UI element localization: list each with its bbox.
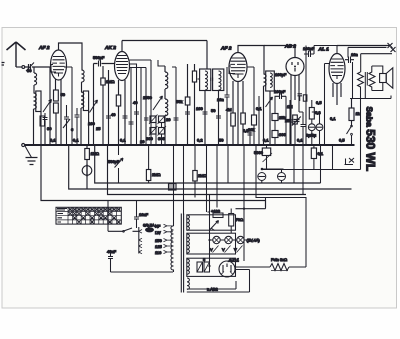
resistor R13 xyxy=(309,108,314,120)
svg-text:300: 300 xyxy=(279,132,286,137)
svg-text:10n: 10n xyxy=(217,97,224,102)
resistor R12 xyxy=(293,115,298,124)
arrow xyxy=(63,119,70,128)
svg-text:LW: LW xyxy=(155,230,161,235)
resistor R16 2M xyxy=(146,170,150,181)
box1 rectifier top xyxy=(187,215,236,230)
svg-text:2MΩ: 2MΩ xyxy=(152,172,161,177)
wire AZ1 to resistor xyxy=(235,266,306,268)
resistor R15 1M xyxy=(85,149,90,160)
capacitor xyxy=(106,116,111,118)
edge mark xyxy=(2,63,5,66)
wire columns osc xyxy=(156,123,162,146)
svg-text:0,5: 0,5 xyxy=(243,128,249,133)
wire xyxy=(119,95,126,145)
svg-text:0,1: 0,1 xyxy=(330,116,336,121)
wire column xyxy=(306,54,330,145)
capacitor xyxy=(123,110,128,124)
capacitor 10nF bottom xyxy=(108,201,139,232)
wire xyxy=(311,100,313,145)
wire xyxy=(291,90,303,145)
svg-text:30: 30 xyxy=(27,68,32,73)
coupling coil xyxy=(264,74,267,95)
svg-text:50: 50 xyxy=(61,92,66,97)
resistor R18 5000 xyxy=(254,148,272,162)
secondary winding 2 xyxy=(187,234,189,253)
svg-text:40nF: 40nF xyxy=(107,249,117,254)
resistor R5 xyxy=(185,97,190,105)
tube V6 AZ1 xyxy=(219,261,235,277)
svg-text:0,1: 0,1 xyxy=(50,138,56,143)
trimmer bank box1 xyxy=(146,115,166,142)
capacitor AB2 left xyxy=(298,94,303,101)
secondary winding 4 xyxy=(187,278,189,289)
wire xyxy=(69,145,352,189)
wires below IF xyxy=(205,91,219,146)
svg-text:6/0,5A: 6/0,5A xyxy=(143,223,155,228)
capacitor xyxy=(275,94,287,100)
switch pot xyxy=(261,168,263,170)
speaker field resistor xyxy=(358,72,364,99)
node terminal xyxy=(22,66,25,69)
trimmer blob AB2 xyxy=(292,117,301,126)
resistor R11 xyxy=(272,131,278,138)
pot arrow xyxy=(266,97,273,107)
wire column xyxy=(108,70,110,145)
resistor small 0,1 AB2 xyxy=(303,95,307,101)
wire extra columns xyxy=(131,67,290,145)
svg-text:2MΩ: 2MΩ xyxy=(198,173,207,178)
lamp 2 xyxy=(225,236,232,243)
svg-text:100pF: 100pF xyxy=(274,89,286,94)
svg-text:8μ/8μ: 8μ/8μ xyxy=(306,133,317,138)
bottom connecting verticals xyxy=(207,222,245,261)
svg-text:125: 125 xyxy=(155,244,162,249)
svg-text:70Ω: 70Ω xyxy=(236,217,243,222)
contacts left xyxy=(139,230,142,254)
switch contact rail xyxy=(138,227,140,254)
coil L2 upper xyxy=(82,70,85,92)
wire xyxy=(275,96,286,145)
wire h3 xyxy=(95,145,321,195)
capacitor C 500pF xyxy=(94,61,115,67)
svg-text:0,1: 0,1 xyxy=(120,138,126,143)
coil L1 upper xyxy=(34,67,37,93)
wire xyxy=(148,145,150,183)
wire xyxy=(174,145,245,261)
vertical filament feed xyxy=(208,195,210,262)
svg-text:25: 25 xyxy=(96,126,101,131)
bottom left wire xyxy=(111,271,174,273)
svg-text:110: 110 xyxy=(155,250,162,255)
tuning arrow L2 xyxy=(90,100,98,113)
svg-text:0,5: 0,5 xyxy=(339,138,345,143)
svg-text:NF: NF xyxy=(155,224,161,229)
svg-text:40: 40 xyxy=(111,112,116,117)
capacitor 40nF xyxy=(108,250,113,272)
resistor R4 xyxy=(116,95,120,106)
speaker cone xyxy=(386,68,393,88)
switch arrow mid xyxy=(115,158,124,168)
svg-text:0,1: 0,1 xyxy=(73,138,79,143)
tone switch xyxy=(345,158,355,165)
svg-text:AF 2: AF 2 xyxy=(220,46,232,52)
electrolytic 8uF a xyxy=(258,173,266,181)
tube V1 AF2 xyxy=(51,50,67,80)
resistor R14 right xyxy=(349,108,354,121)
coil L1 lower xyxy=(34,93,37,145)
oscillator wires from V2 xyxy=(130,60,152,145)
shield box L1 xyxy=(36,91,41,112)
svg-text:50: 50 xyxy=(219,138,224,143)
capacitor 500 below xyxy=(114,161,119,163)
secondary winding 1 xyxy=(187,215,189,230)
wire xyxy=(264,91,271,145)
switch arrow osc xyxy=(153,96,163,110)
resistor extra left xyxy=(40,116,45,126)
resistor R17 xyxy=(193,171,197,182)
capacitor xyxy=(43,113,48,124)
svg-text:40: 40 xyxy=(133,100,138,105)
wire xyxy=(102,66,104,145)
tube V1 pins xyxy=(56,79,62,90)
resistor R2 xyxy=(54,103,59,113)
tube V3 pins xyxy=(233,81,243,100)
bottom lines xyxy=(187,270,250,293)
resistor R19 0,1 xyxy=(311,148,316,159)
power transformer primary xyxy=(171,226,174,272)
wire column xyxy=(44,121,46,145)
resistor 100ohm xyxy=(229,214,234,227)
fuse box 1 xyxy=(197,262,203,272)
svg-text:150: 150 xyxy=(155,238,162,243)
resistor R6 xyxy=(192,71,196,82)
svg-text:V: V xyxy=(234,247,237,252)
svg-text:AK 2: AK 2 xyxy=(104,45,116,51)
long verticals into bottom section xyxy=(207,145,245,212)
svg-text:4M: 4M xyxy=(226,107,232,112)
svg-text:AB 2: AB 2 xyxy=(284,44,296,50)
main chassis bus xyxy=(25,144,355,146)
wire h right verticals xyxy=(294,145,321,195)
junction dots filament xyxy=(208,239,210,241)
wire xyxy=(312,112,320,145)
wire h5 xyxy=(111,145,162,193)
capacitor xyxy=(203,112,222,118)
right edge bottom section xyxy=(236,198,307,268)
tube V2 pins xyxy=(119,80,126,95)
svg-text:1M: 1M xyxy=(287,104,293,109)
svg-text:20: 20 xyxy=(166,117,171,122)
tube V2 AK2 xyxy=(115,52,130,81)
top bus wire xyxy=(122,40,207,42)
wire xyxy=(261,145,284,169)
svg-text:0,5: 0,5 xyxy=(316,100,322,105)
resistor R1 xyxy=(54,90,59,101)
bus terminal xyxy=(22,144,25,147)
capacitor block below xyxy=(169,184,177,191)
svg-text:Saba 530 WL: Saba 530 WL xyxy=(364,107,378,172)
secondary winding 3 xyxy=(187,259,189,274)
box3 rectifier xyxy=(187,258,236,276)
svg-text:0,1: 0,1 xyxy=(263,138,269,143)
coil L2 lower xyxy=(81,92,84,145)
wire xyxy=(233,95,243,145)
speaker driver xyxy=(380,74,387,83)
capacitor 100pF xyxy=(304,51,314,57)
svg-text:50k: 50k xyxy=(176,99,182,104)
speaker capacitor xyxy=(365,72,367,86)
electrolytic capacitors 8uF xyxy=(306,124,323,138)
svg-text:0,1: 0,1 xyxy=(297,138,303,143)
svg-text:1k: 1k xyxy=(356,111,360,116)
resistor R3 1M xyxy=(101,78,105,85)
svg-text:10nF: 10nF xyxy=(139,212,149,217)
lamp 1 xyxy=(213,236,220,243)
svg-text:500pF: 500pF xyxy=(108,159,120,164)
wire antenna to input xyxy=(16,66,22,68)
svg-text:10n: 10n xyxy=(351,52,358,57)
svg-text:V: V xyxy=(210,247,213,252)
lamp arrows xyxy=(213,246,243,253)
wire h1 xyxy=(261,99,361,170)
tube V4 pins xyxy=(291,75,299,101)
fuse blob xyxy=(143,223,155,233)
AZ1 bottom loop xyxy=(220,277,234,285)
wire xyxy=(40,112,42,146)
resistor +100 horizontal xyxy=(213,213,223,218)
wire xyxy=(56,90,61,145)
wire xyxy=(351,99,353,124)
coil L3 lower xyxy=(165,99,168,145)
below-bus left box wire xyxy=(41,145,266,208)
svg-text:AZ 1: AZ 1 xyxy=(228,258,240,264)
svg-text:50: 50 xyxy=(211,108,216,113)
mains plug x2 xyxy=(391,47,396,52)
lamp wire stubs xyxy=(210,239,247,241)
mains top wires xyxy=(337,46,392,54)
svg-text:V: V xyxy=(222,247,225,252)
wire xyxy=(158,60,165,66)
pot arrow box1 xyxy=(210,221,219,231)
wire xyxy=(194,64,196,145)
IF transformer can 1 xyxy=(200,69,211,91)
svg-text:20: 20 xyxy=(140,139,145,144)
mains plug x1 xyxy=(388,43,393,48)
resistor R10 xyxy=(272,114,278,121)
wire column xyxy=(354,60,356,99)
phone jack xyxy=(82,165,92,177)
capacitor 10nF right of AL1 xyxy=(345,57,354,64)
wire xyxy=(187,64,189,145)
svg-text:(2V,4A): (2V,4A) xyxy=(247,238,261,243)
svg-text:100: 100 xyxy=(196,106,203,111)
svg-text:300: 300 xyxy=(146,136,153,141)
capacitor xyxy=(64,105,69,145)
svg-text:30k: 30k xyxy=(248,127,254,132)
svg-text:500pF: 500pF xyxy=(93,55,105,60)
svg-text:AL 1: AL 1 xyxy=(318,47,330,53)
speaker bottom wire xyxy=(350,96,391,99)
capacitor grid V3 xyxy=(225,67,230,145)
wire input to grid column xyxy=(35,67,50,145)
electrolytic 8uF b xyxy=(278,173,286,181)
wire xyxy=(348,47,361,98)
tuning arrow L1 xyxy=(43,100,52,113)
IF transformer can 2 xyxy=(213,69,224,91)
lamp 3 xyxy=(237,236,244,243)
capacitor xyxy=(75,108,80,145)
resistor Fein 3x0 xyxy=(270,257,289,271)
svg-text:30: 30 xyxy=(47,126,52,131)
box2 lamps xyxy=(187,233,236,254)
speaker loop xyxy=(372,66,383,91)
svg-text:5000: 5000 xyxy=(254,150,264,155)
svg-text:0,2: 0,2 xyxy=(197,138,203,143)
wire xyxy=(247,67,254,145)
resistor R9 xyxy=(252,115,257,125)
capacitor IF xyxy=(211,78,213,82)
contacts right with labels xyxy=(164,224,174,253)
coil L3 upper xyxy=(165,66,168,99)
svg-text:2500: 2500 xyxy=(143,95,153,100)
svg-text:100pF: 100pF xyxy=(303,46,315,51)
ground xyxy=(25,146,38,165)
svg-text:AF 2: AF 2 xyxy=(38,45,50,51)
junction dot xyxy=(243,208,245,210)
tube V5 pins xyxy=(333,83,341,105)
wire column xyxy=(64,67,72,145)
resistor R7 xyxy=(231,113,236,126)
svg-text:0,1: 0,1 xyxy=(256,106,262,111)
capacitor xyxy=(134,112,149,120)
wire xyxy=(313,145,315,170)
wire column xyxy=(93,64,95,146)
capacitor extras xyxy=(129,118,253,135)
switch right xyxy=(347,124,352,146)
tube V4 AB2 xyxy=(286,58,304,76)
speaker primary resistor xyxy=(369,66,375,91)
capacitor xyxy=(185,112,190,114)
wire top V4 xyxy=(264,46,295,58)
wire xyxy=(194,145,196,189)
transformer core xyxy=(181,214,183,293)
wire xyxy=(364,86,366,99)
table header marks xyxy=(57,209,67,223)
wire tube V1 top loop xyxy=(59,43,83,70)
fuse box 2 xyxy=(204,262,210,272)
svg-text:100pF: 100pF xyxy=(275,72,287,77)
wire top V5 xyxy=(306,46,337,55)
table X marks xyxy=(69,208,121,224)
wave switch line xyxy=(108,228,139,231)
svg-text:+100: +100 xyxy=(211,209,221,214)
wire xyxy=(256,145,282,198)
tube V5 AL1 xyxy=(329,54,345,84)
IF can 3 xyxy=(266,71,275,91)
wire tube V2 top xyxy=(121,41,123,52)
trimmer capacitor antenna xyxy=(25,63,35,72)
shield box L2 xyxy=(83,91,88,111)
wire xyxy=(88,111,90,146)
capacitor xyxy=(301,112,306,145)
table xyxy=(56,207,121,224)
svg-text:Fein 3xΩ: Fein 3xΩ xyxy=(271,257,287,262)
tube V3 AF2 xyxy=(229,53,247,82)
antenna xyxy=(7,42,26,67)
svg-text:100: 100 xyxy=(88,121,95,126)
svg-text:1MΩ: 1MΩ xyxy=(106,79,115,84)
wire tube V3 top loop xyxy=(238,46,264,75)
wire top to IF xyxy=(206,41,208,70)
resistor R8 xyxy=(241,113,246,124)
